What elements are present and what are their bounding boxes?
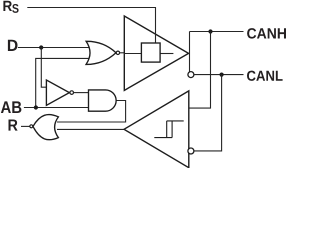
node D junction bbox=[39, 45, 43, 49]
wire driver centerline left bbox=[124, 53, 141, 55]
wire CANH bbox=[190, 31, 244, 33]
node D label bbox=[8, 40, 18, 51]
node CANH label bbox=[247, 28, 286, 38]
wire D input bbox=[18, 47, 89, 49]
wire R output bbox=[21, 125, 30, 127]
gate NOR U4 output bubble bbox=[30, 125, 33, 128]
node CANL label bbox=[247, 71, 283, 81]
wire CANL bbox=[194, 74, 243, 76]
wire inverter to AND bbox=[74, 92, 89, 94]
wire driver output vertical A bbox=[189, 32, 191, 78]
gate NOR U4 (R output, points left) bbox=[33, 115, 58, 140]
wire RS input bbox=[27, 8, 155, 44]
gate inverter U2 bbox=[46, 80, 69, 105]
gate NOR U1 output bubble bbox=[116, 51, 119, 54]
gate inverter U2 output bubble bbox=[70, 91, 74, 95]
wire receiver output to OR lower input bbox=[57, 128, 124, 130]
wire AND output to OR upper input bbox=[57, 101, 126, 123]
receiver comparator U6 bbox=[124, 91, 189, 168]
wire CANH to receiver input bbox=[189, 32, 211, 109]
receiver inverting input bubble bbox=[188, 148, 194, 154]
node CANH junction bbox=[208, 29, 212, 33]
wire NOR output to driver bbox=[120, 52, 125, 54]
wire AB feedback to NOR lower input bbox=[36, 58, 89, 107]
node AB junction bbox=[34, 105, 38, 109]
wire driver centerline right bbox=[160, 53, 173, 55]
wire D to inverter bbox=[41, 48, 46, 88]
node R label bbox=[9, 120, 18, 131]
wire CANL to receiver input bbox=[194, 75, 222, 151]
gate AND U3 bbox=[89, 90, 117, 111]
receiver hysteresis symbol bbox=[154, 121, 183, 138]
slope control box bbox=[141, 43, 160, 62]
wire AB input bbox=[24, 107, 89, 109]
node RS label bbox=[3, 1, 18, 13]
gate NOR U1 bbox=[86, 41, 116, 64]
driver CANL inverting bubble bbox=[188, 72, 194, 78]
node CANL junction bbox=[220, 73, 224, 77]
node AB label bbox=[1, 101, 22, 113]
driver amplifier U5 bbox=[124, 16, 188, 90]
